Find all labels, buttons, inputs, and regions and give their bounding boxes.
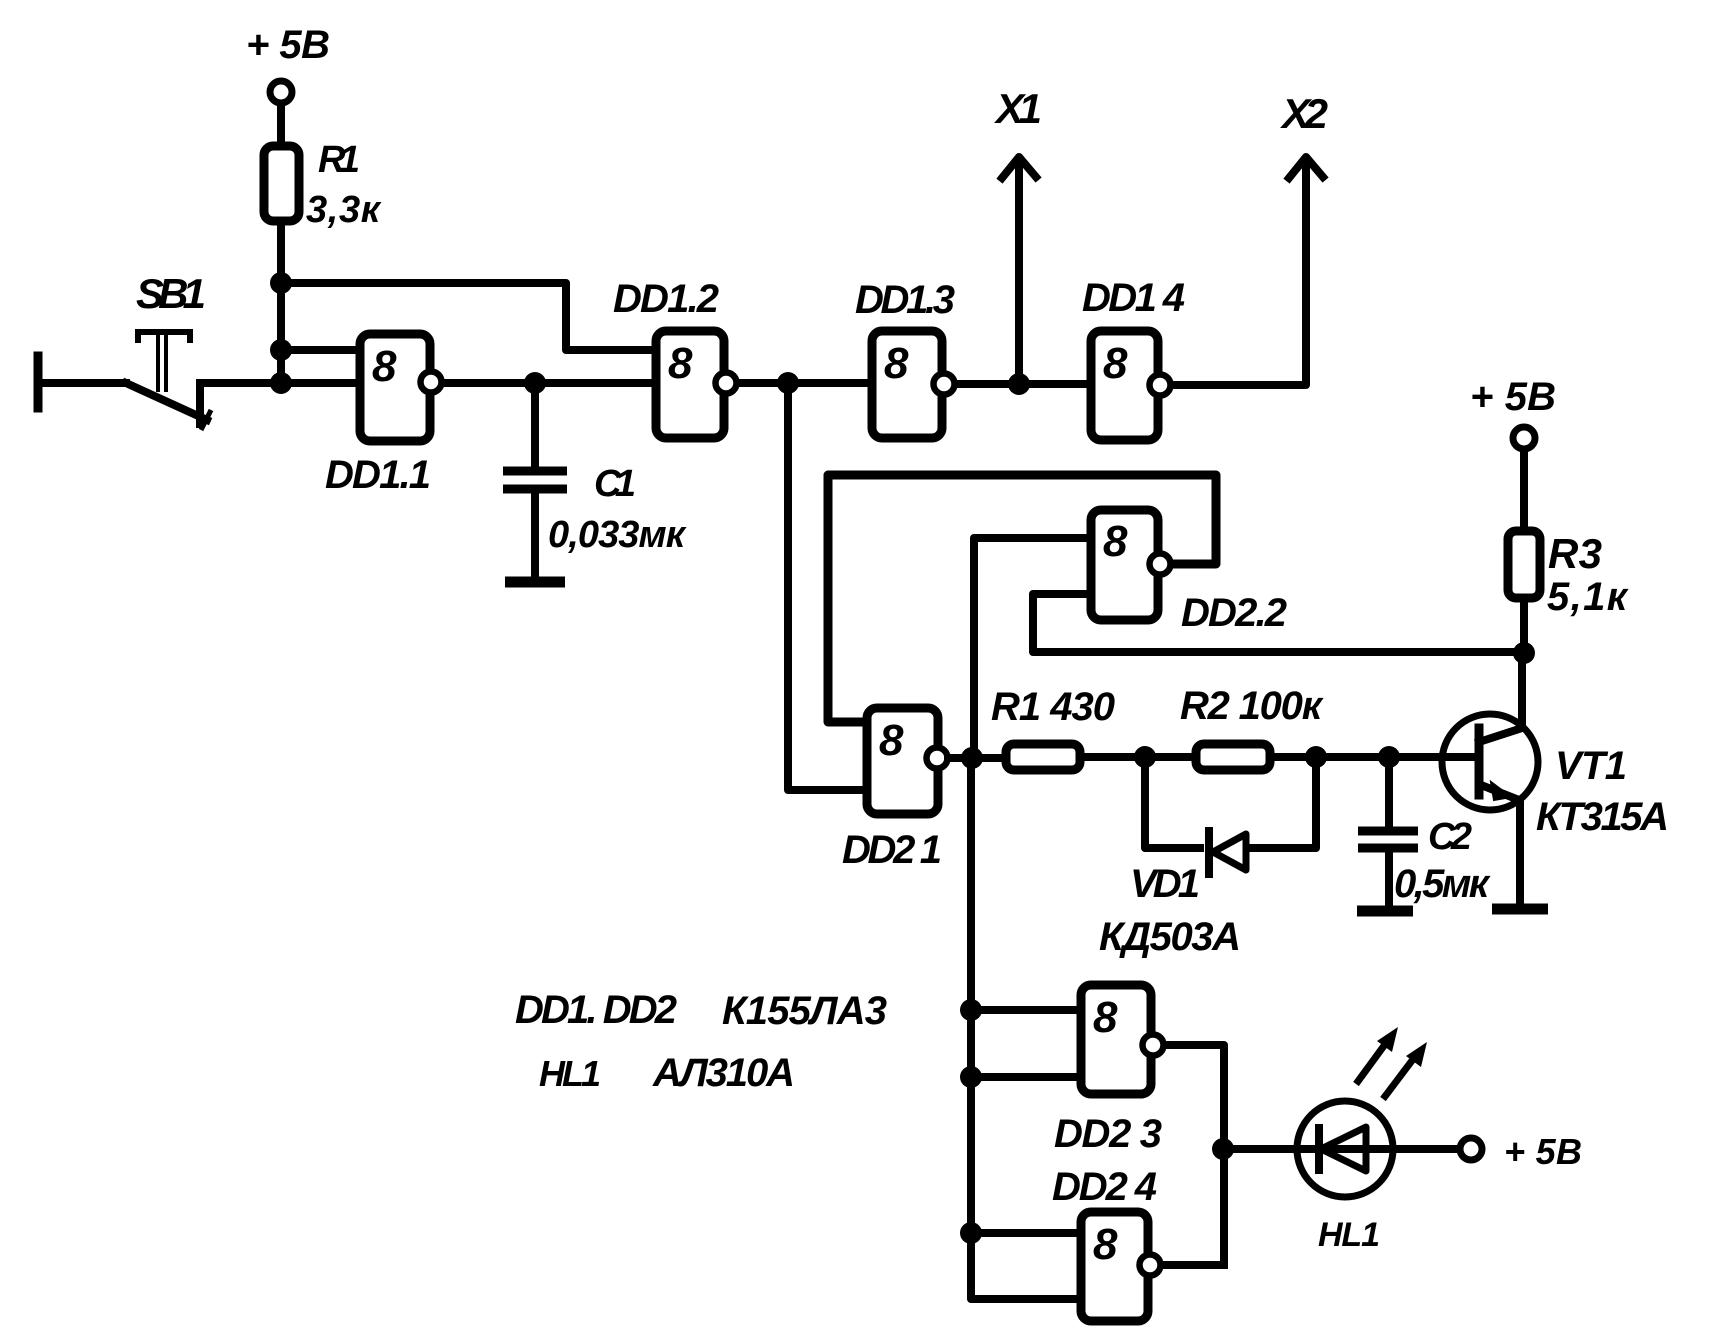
+5V terminal circle right [1513,427,1535,449]
svg-text:R1 430: R1 430 [991,685,1115,729]
gate DD1.2 [656,331,737,438]
node dot collector [1513,642,1535,664]
wire VD1 branch [1145,757,1316,848]
label HL1 under LED [1318,1216,1380,1254]
label SB1 [136,270,206,317]
transistor VT1 [1442,714,1538,810]
wire DD2.1 output to R1 [948,754,1006,762]
svg-text:8: 8 [1093,1220,1118,1269]
wire DD2.2 lower input to collector node [1033,594,1524,652]
LED HL1 [1297,1101,1393,1197]
node dot LED [1212,1138,1234,1160]
label DD1.3 [855,278,955,322]
gate DD2.4 [1081,1212,1161,1321]
wire node to DD1.1 lower input [281,379,360,387]
node dot C2 tap [1378,746,1400,768]
svg-text:3,3к: 3,3к [306,189,382,231]
label DD2 3 [1054,1112,1162,1156]
+5V terminal circle top-left [270,81,292,103]
wire terminal to R3 [1520,451,1528,531]
node dot DD1.1 upper input [270,339,292,361]
gate DD1.3 [872,331,955,438]
resistor R1 [264,146,299,221]
resistor R2 [1196,744,1270,770]
label C1 [594,463,636,505]
svg-text:8: 8 [1103,339,1128,388]
svg-text:R2 100к: R2 100к [1180,684,1324,728]
label DD2 1 [842,828,942,872]
value 5,1k [1547,575,1629,619]
svg-text:+ 5В: + 5В [246,23,330,67]
svg-text:R1: R1 [318,139,360,181]
svg-text:0,033мк: 0,033мк [548,514,687,556]
wire DD1.1 output to DD1.2 [446,379,656,387]
svg-text:КД503А: КД503А [1099,915,1241,959]
gate DD1.4 [1091,331,1171,440]
wire DD2.1 output down to lower gates [967,758,975,1233]
value 0,5mk [1394,862,1491,906]
wire to DD2.3 lower input [971,1073,1081,1081]
svg-text:X2: X2 [1280,90,1328,137]
wire LED node to +5V terminal [1223,1145,1459,1153]
label R1 430 [991,685,1115,729]
wire node to DD1.1 upper input [281,346,360,354]
node dot DD2.4 upper input [960,1222,982,1244]
wire X1 arrow [1002,157,1036,384]
capacitor C2 [1358,757,1418,910]
wire switch riser to bus [200,383,281,424]
switch SB1 actuator [138,332,190,392]
gate DD1.1 [360,334,442,441]
svg-text:+ 5В: + 5В [1470,375,1556,419]
svg-text:VT1: VT1 [1555,744,1627,788]
label VT1 [1555,744,1627,788]
resistor R1 430 [1006,744,1080,770]
input terminal bar left [34,356,43,408]
wire emitter to ground [1516,800,1524,908]
svg-text:DD2 3: DD2 3 [1054,1112,1162,1156]
wire to DD2.4 lower input [971,1233,1081,1299]
label DD2 4 [1052,1165,1157,1209]
wire node to DD1.2 upper input (step) [281,283,656,350]
node dot VD1 right [1305,746,1327,768]
label R2 100k [1180,684,1324,728]
wire DD2.4 output to LED node [1162,1261,1224,1269]
svg-text:8: 8 [372,342,397,391]
node dot C1 tap [524,372,546,394]
svg-text:0,5мк: 0,5мк [1394,862,1491,906]
label C2 [1428,816,1472,858]
wire DD1.3 output to DD1.4 [958,380,1091,388]
value KD503A [1099,915,1241,959]
ground C1 [505,577,565,588]
svg-text:8: 8 [884,339,909,388]
svg-text:DD2 1: DD2 1 [842,828,942,872]
svg-text:R3: R3 [1548,530,1602,577]
svg-text:SB1: SB1 [136,270,206,317]
capacitor C1 [503,383,567,580]
svg-text:C2: C2 [1428,816,1472,858]
label DD1.2 [613,277,719,321]
value KT315A [1536,795,1669,839]
svg-text:VD1: VD1 [1130,862,1200,906]
label R1 [318,139,360,181]
node dot DD2.3 lower input [960,1066,982,1088]
+5V label LED [1504,1131,1582,1172]
svg-text:КТ315А: КТ315А [1536,795,1669,839]
svg-text:HL1: HL1 [539,1053,601,1094]
gate DD2.3 [1081,985,1164,1094]
wire to DD2.3 upper input [971,1006,1081,1014]
svg-text:8: 8 [1093,993,1118,1042]
svg-text:АЛ310А: АЛ310А [652,1051,795,1095]
wire DD1.2 node down to DD2.1 lower input [788,383,867,790]
wire R2 to base [1270,753,1477,761]
svg-text:DD2.2: DD2.2 [1181,591,1287,635]
label VD1 [1130,862,1200,906]
value 0,033mk [548,514,687,556]
gate DD2.1 [867,708,948,814]
svg-text:+ 5В: + 5В [1504,1131,1582,1172]
wire terminal to R1 [277,105,285,146]
svg-text:DD1.2: DD1.2 [613,277,719,321]
label DD1 4 [1082,276,1185,320]
ground C2 [1357,906,1413,917]
wire collector to node [1518,653,1526,728]
svg-text:DD1.3: DD1.3 [855,278,955,322]
wire DD1.4 output to X2 [1174,157,1323,385]
+5V terminal label top-left [246,23,330,67]
svg-text:DD1.1: DD1.1 [325,453,431,497]
label DD1.1 [325,453,431,497]
value 3,3k [306,189,382,231]
+5V terminal label right [1470,375,1556,419]
wire to DD2.4 upper input [971,1229,1081,1237]
svg-text:К155ЛА3: К155ЛА3 [722,989,887,1033]
svg-text:8: 8 [1103,517,1128,566]
label R3 [1548,530,1602,577]
svg-text:HL1: HL1 [1318,1216,1380,1254]
svg-text:DD2 4: DD2 4 [1052,1165,1157,1209]
node dot DD2.3 upper input [960,999,982,1021]
svg-text:8: 8 [879,716,904,765]
wire R1 to R2 [1080,753,1196,761]
node dot VD1 left [1134,746,1156,768]
wire terminal to switch [38,379,126,387]
label X2 [1280,90,1328,137]
node dot R1 bottom [270,272,292,294]
node dot bus [270,372,292,394]
svg-text:8: 8 [668,339,693,388]
note HL1 type [539,1051,795,1095]
wire R3 to collector node [1520,598,1528,653]
+5V terminal circle LED [1460,1138,1482,1160]
svg-text:5,1к: 5,1к [1547,575,1629,619]
svg-text:DD1 4: DD1 4 [1082,276,1185,320]
wire DD2.1 output to DD2.2 upper input [953,538,1091,758]
diode VD1 [1209,831,1246,874]
node dot feedback branch [777,372,799,394]
switch SB1 moving contact [126,383,211,430]
node dot DD2.1 output [961,747,983,769]
svg-text:DD1. DD2: DD1. DD2 [515,988,677,1032]
wire DD2.3 output to LED node [1165,1045,1224,1265]
wire DD2.2 output feedback loop [828,475,1216,722]
resistor R3 [1508,531,1540,598]
label DD2.2 [1181,591,1287,635]
ground VT1 emitter [1492,904,1548,915]
node dot X1 tap [1008,373,1030,395]
gate DD2.2 [1091,510,1171,620]
LED emission arrows [1356,1027,1427,1099]
svg-text:C1: C1 [594,463,636,505]
wire DD1.2 output to DD1.3 [740,379,872,387]
note DD1 DD2 type [515,988,887,1033]
label X1 [994,85,1042,132]
wire R1 bottom to bus [277,221,285,383]
svg-text:X1: X1 [994,85,1042,132]
